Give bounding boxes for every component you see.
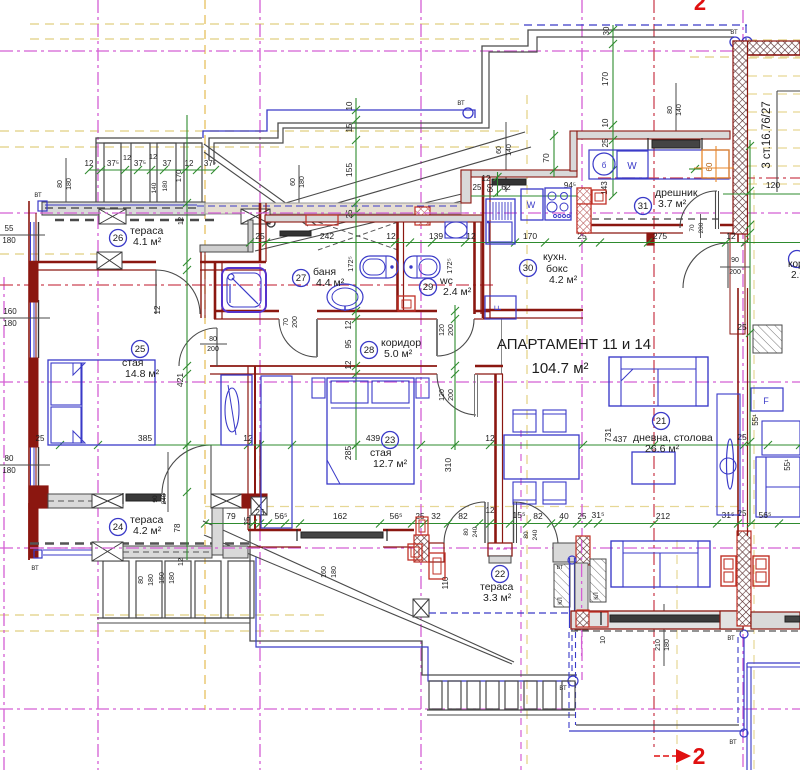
svg-text:ВТ: ВТ (559, 686, 567, 692)
svg-text:240: 240 (532, 529, 539, 540)
svg-text:25: 25 (473, 183, 482, 192)
svg-text:4.1 м²: 4.1 м² (133, 236, 162, 248)
svg-text:80: 80 (5, 454, 14, 463)
svg-text:12: 12 (344, 320, 353, 329)
svg-text:160: 160 (321, 566, 328, 578)
svg-text:3 ст.16.76/27: 3 ст.16.76/27 (761, 101, 773, 168)
svg-text:180: 180 (299, 176, 306, 188)
svg-text:180: 180 (664, 639, 671, 651)
svg-text:25: 25 (737, 432, 747, 442)
svg-text:80: 80 (138, 576, 145, 584)
svg-text:W: W (627, 161, 637, 172)
svg-text:12: 12 (85, 159, 94, 168)
svg-text:22: 22 (495, 569, 506, 580)
svg-text:30: 30 (602, 26, 611, 35)
svg-text:W: W (527, 200, 536, 210)
svg-text:60: 60 (290, 178, 297, 186)
svg-text:2: 2 (693, 743, 706, 769)
svg-text:26: 26 (113, 233, 124, 244)
svg-text:70: 70 (283, 318, 290, 326)
svg-text:ВТ: ВТ (31, 566, 39, 572)
svg-text:170: 170 (174, 170, 183, 183)
svg-text:200: 200 (698, 222, 705, 233)
svg-text:439: 439 (366, 433, 380, 443)
svg-text:385: 385 (138, 433, 152, 443)
svg-text:200: 200 (729, 269, 741, 276)
svg-text:12: 12 (149, 152, 157, 161)
svg-text:12: 12 (153, 305, 162, 314)
svg-text:160: 160 (3, 307, 17, 316)
svg-text:62: 62 (501, 182, 511, 192)
svg-text:82: 82 (458, 511, 468, 521)
svg-text:731: 731 (603, 428, 613, 442)
svg-text:30: 30 (523, 263, 534, 274)
svg-text:421: 421 (175, 373, 185, 387)
svg-text:56⁵: 56⁵ (275, 511, 288, 521)
svg-text:60: 60 (705, 162, 714, 171)
svg-text:200: 200 (207, 346, 219, 353)
svg-text:ВТ: ВТ (729, 740, 737, 746)
svg-text:ВТ: ВТ (557, 565, 564, 571)
svg-text:180: 180 (331, 566, 338, 578)
svg-text:15: 15 (345, 123, 354, 132)
svg-text:12: 12 (123, 153, 131, 162)
svg-text:55¹: 55¹ (751, 414, 760, 426)
svg-text:25: 25 (737, 322, 747, 332)
svg-text:21: 21 (656, 416, 667, 427)
svg-text:210: 210 (655, 639, 662, 651)
svg-text:120: 120 (439, 389, 446, 401)
svg-text:240: 240 (161, 493, 168, 504)
svg-text:12: 12 (466, 231, 476, 241)
svg-text:180: 180 (148, 574, 155, 586)
svg-text:60: 60 (486, 183, 495, 192)
svg-text:95: 95 (344, 339, 353, 348)
svg-text:28: 28 (364, 345, 375, 356)
svg-text:12: 12 (185, 159, 194, 168)
svg-text:285: 285 (343, 446, 353, 460)
svg-text:ВТ: ВТ (730, 30, 738, 36)
svg-text:180: 180 (2, 236, 16, 245)
svg-text:F: F (763, 396, 769, 406)
svg-text:4.2 м²: 4.2 м² (549, 274, 578, 286)
svg-text:29: 29 (423, 282, 434, 293)
svg-text:2: 2 (694, 0, 706, 15)
svg-text:120: 120 (439, 324, 446, 336)
svg-text:240: 240 (472, 526, 479, 537)
svg-text:37⁵: 37⁵ (107, 159, 119, 168)
svg-text:60: 60 (496, 146, 503, 154)
svg-text:37: 37 (163, 159, 172, 168)
svg-text:180: 180 (2, 466, 16, 475)
svg-text:242: 242 (320, 231, 334, 241)
svg-text:80: 80 (57, 180, 64, 188)
svg-text:25: 25 (135, 344, 146, 355)
svg-text:12: 12 (485, 433, 495, 443)
svg-text:25: 25 (345, 209, 354, 218)
svg-text:78: 78 (173, 523, 182, 532)
svg-text:170: 170 (600, 72, 610, 86)
svg-text:12: 12 (176, 217, 185, 225)
svg-text:104.7 м²: 104.7 м² (531, 360, 588, 377)
svg-text:КЛ: КЛ (558, 597, 564, 604)
svg-text:56⁵: 56⁵ (390, 511, 403, 521)
svg-text:кори: кори (788, 259, 800, 270)
svg-text:25: 25 (738, 509, 747, 518)
svg-text:15⁵: 15⁵ (513, 510, 526, 520)
svg-text:10: 10 (601, 118, 610, 127)
svg-text:80: 80 (523, 531, 530, 539)
svg-text:80: 80 (209, 336, 217, 343)
svg-text:КЛ: КЛ (594, 592, 600, 599)
svg-text:25: 25 (255, 231, 265, 241)
svg-text:200: 200 (448, 324, 455, 336)
svg-text:12.7 м²: 12.7 м² (373, 458, 408, 470)
svg-text:25: 25 (256, 508, 265, 517)
svg-text:172⁵: 172⁵ (346, 256, 355, 272)
svg-text:12: 12 (486, 506, 495, 515)
svg-text:25: 25 (243, 516, 252, 525)
svg-text:180: 180 (3, 319, 17, 328)
svg-text:180: 180 (162, 180, 169, 191)
svg-text:25: 25 (36, 434, 45, 443)
svg-text:200: 200 (292, 316, 299, 328)
svg-text:140: 140 (676, 104, 683, 116)
svg-text:70: 70 (689, 224, 696, 232)
svg-text:12: 12 (176, 558, 185, 566)
svg-text:12: 12 (386, 231, 396, 241)
svg-text:23: 23 (385, 435, 396, 446)
svg-text:кухн.: кухн. (543, 251, 567, 263)
svg-text:10: 10 (345, 101, 354, 110)
svg-text:82: 82 (533, 511, 543, 521)
svg-text:79: 79 (226, 511, 236, 521)
svg-text:F: F (493, 305, 503, 311)
svg-text:14.8 м²: 14.8 м² (125, 368, 160, 380)
svg-text:ВТ: ВТ (457, 101, 465, 107)
svg-text:37⁵: 37⁵ (134, 159, 146, 168)
svg-text:31: 31 (638, 201, 649, 212)
svg-text:5.0 м²: 5.0 м² (384, 348, 413, 360)
svg-text:155: 155 (344, 163, 354, 177)
svg-text:3.7 м²: 3.7 м² (658, 198, 687, 210)
svg-text:37⁵: 37⁵ (204, 159, 216, 168)
svg-text:10: 10 (600, 636, 607, 644)
svg-text:90: 90 (152, 495, 159, 503)
svg-text:3.3 м²: 3.3 м² (483, 592, 512, 604)
svg-text:80: 80 (667, 106, 674, 114)
svg-text:31⁵: 31⁵ (592, 510, 605, 520)
svg-text:170: 170 (523, 231, 537, 241)
svg-text:27: 27 (296, 273, 307, 284)
svg-text:437: 437 (613, 434, 627, 444)
svg-text:4.2 м²: 4.2 м² (133, 525, 162, 537)
svg-text:56⁵: 56⁵ (759, 510, 772, 520)
svg-text:70: 70 (541, 153, 551, 163)
svg-text:12: 12 (482, 174, 491, 183)
svg-text:АПАРТАМЕНТ 11 и 14: АПАРТАМЕНТ 11 и 14 (497, 336, 651, 353)
svg-text:4.4 м²: 4.4 м² (316, 277, 345, 289)
svg-text:172⁵: 172⁵ (445, 258, 454, 274)
svg-text:162: 162 (333, 511, 347, 521)
svg-text:12: 12 (344, 360, 353, 369)
svg-text:55¹: 55¹ (783, 459, 792, 471)
svg-text:55: 55 (5, 224, 14, 233)
svg-text:310: 310 (443, 458, 453, 472)
svg-text:140: 140 (506, 144, 513, 156)
svg-text:24: 24 (113, 522, 124, 533)
svg-text:200: 200 (448, 389, 455, 401)
svg-text:139: 139 (429, 231, 443, 241)
svg-text:275: 275 (653, 231, 667, 241)
svg-text:150: 150 (159, 572, 166, 584)
svg-text:25: 25 (578, 512, 587, 521)
svg-text:90: 90 (731, 257, 739, 264)
svg-text:25: 25 (601, 138, 610, 147)
svg-text:120: 120 (766, 180, 780, 190)
svg-text:2.9: 2.9 (791, 270, 800, 281)
svg-text:180: 180 (66, 178, 73, 190)
svg-text:2.4 м²: 2.4 м² (443, 286, 472, 298)
svg-text:26.6 м²: 26.6 м² (645, 443, 680, 455)
svg-text:212: 212 (656, 511, 670, 521)
svg-text:12: 12 (726, 231, 736, 241)
svg-text:ВТ: ВТ (34, 193, 42, 199)
svg-text:140: 140 (151, 182, 158, 193)
svg-text:40: 40 (559, 511, 569, 521)
svg-text:80: 80 (463, 528, 470, 536)
svg-text:б: б (602, 161, 607, 170)
svg-text:32: 32 (431, 511, 441, 521)
svg-text:180: 180 (169, 572, 176, 584)
svg-text:ВТ: ВТ (727, 636, 735, 642)
